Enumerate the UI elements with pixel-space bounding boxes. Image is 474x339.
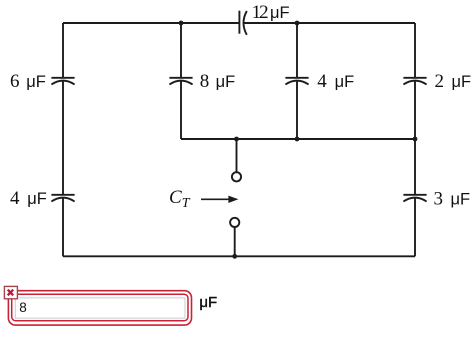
capacitor C8 curved plate bbox=[169, 81, 192, 85]
wire left branch upper bbox=[62, 23, 64, 78]
answer close button bbox=[4, 286, 17, 298]
junction dot bottom terminal bbox=[232, 254, 237, 259]
terminal top circle bbox=[232, 172, 241, 181]
junction dot middle terminal bbox=[234, 137, 239, 142]
capacitor C12 curved plate bbox=[244, 11, 247, 35]
wire terminal top stub bbox=[236, 139, 238, 172]
capacitor C3 curved plate bbox=[403, 198, 426, 202]
capacitor C4T curved plate bbox=[285, 81, 308, 85]
svg-text:12μF: 12μF bbox=[252, 2, 290, 23]
svg-text:8μF: 8μF bbox=[200, 71, 235, 92]
wire 8uF branch upper bbox=[180, 23, 182, 78]
wire right branch middle bbox=[414, 81, 416, 195]
answer input field gray border bbox=[15, 298, 185, 318]
svg-text:4μF: 4μF bbox=[10, 188, 47, 209]
svg-text:CT: CT bbox=[169, 187, 191, 211]
svg-text:3μF: 3μF bbox=[434, 188, 471, 209]
svg-text:6μF: 6μF bbox=[10, 71, 46, 92]
wire top-right segment bbox=[244, 22, 415, 24]
wire 4uF top branch lower bbox=[296, 81, 298, 139]
capacitor C2 curved plate bbox=[403, 81, 426, 85]
answer unit uF bbox=[199, 294, 217, 311]
wire 8uF branch lower bbox=[180, 81, 182, 139]
junction dot middle right bbox=[413, 137, 418, 142]
capacitor C4L curved plate bbox=[51, 198, 74, 202]
junction dot top 8uF bbox=[179, 21, 184, 26]
svg-text:4μF: 4μF bbox=[317, 71, 354, 92]
wire bottom bbox=[63, 255, 415, 257]
wire top-left segment bbox=[63, 22, 239, 24]
capacitor C3 flat plate bbox=[403, 194, 426, 196]
wire left branch middle bbox=[62, 81, 64, 195]
answer outer red outline bbox=[8, 291, 191, 325]
wire terminal bottom stub bbox=[234, 227, 236, 256]
answer text 8 bbox=[19, 300, 27, 315]
capacitor C2 flat plate bbox=[403, 77, 426, 79]
wire right branch lower bbox=[414, 198, 416, 257]
svg-text:2μF: 2μF bbox=[435, 71, 472, 92]
arrow CT bbox=[201, 196, 238, 203]
terminal bottom circle bbox=[230, 218, 239, 227]
wire 4uF top branch upper bbox=[296, 23, 298, 78]
capacitor C8 flat plate bbox=[169, 77, 192, 79]
wire left branch lower bbox=[62, 198, 64, 257]
capacitor C6 curved plate bbox=[51, 81, 74, 85]
junction dot top 4uF bbox=[295, 21, 300, 26]
answer inner red border bbox=[12, 294, 188, 321]
capacitor C4T flat plate bbox=[285, 77, 308, 79]
capacitor C4L flat plate bbox=[51, 194, 74, 196]
wire right branch upper bbox=[414, 23, 416, 78]
close X glyph bbox=[8, 290, 14, 296]
capacitor C6 flat plate bbox=[51, 77, 74, 79]
capacitor C12 flat plate bbox=[238, 11, 240, 34]
junction dot middle 4uF bbox=[295, 137, 300, 142]
wire middle horizontal bbox=[181, 138, 415, 140]
